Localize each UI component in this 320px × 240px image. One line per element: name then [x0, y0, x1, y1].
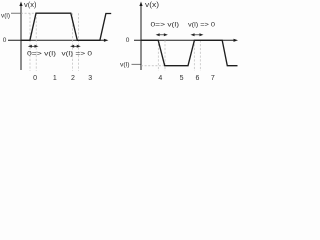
right plot rise-interval arrow: [192, 34, 203, 36]
left plot dashed guide at x=78.4: [77, 13, 79, 71]
svg-text:7: 7: [211, 75, 215, 82]
svg-text:v(l): v(l): [1, 13, 10, 20]
right plot y-axis: [139, 2, 142, 71]
left plot dashed guide at x=36: [35, 13, 37, 71]
svg-text:2: 2: [71, 75, 75, 82]
svg-text:4: 4: [158, 75, 162, 82]
right plot dashed guide at x=200.3: [199, 40, 201, 71]
right plot waveform v(x) dip: [141, 40, 238, 65]
left plot dashed guide at x=72.5: [72, 13, 74, 71]
right plot v(l) dashed level line: [141, 65, 164, 67]
svg-text:3: 3: [88, 75, 92, 82]
svg-text:v(x): v(x): [145, 2, 159, 9]
left plot dashed guide at x=30: [29, 13, 31, 71]
right plot dashed guide at x=158.3: [157, 40, 159, 71]
right plot fall-interval arrow: [157, 34, 167, 36]
left plot v(l) dashed level line: [21, 12, 36, 14]
svg-text:0=> v(l): 0=> v(l): [27, 51, 56, 58]
right plot x-axis: [134, 39, 238, 42]
left plot x-axis: [8, 39, 108, 42]
svg-text:v(l) => 0: v(l) => 0: [188, 22, 215, 29]
svg-text:0=> v(l): 0=> v(l): [151, 22, 180, 29]
svg-text:6: 6: [196, 75, 200, 82]
svg-text:v(l) => 0: v(l) => 0: [62, 51, 93, 58]
right plot v(l) level tick: [132, 63, 141, 65]
svg-text:0: 0: [126, 37, 130, 44]
right plot dashed guide at x=165: [164, 40, 166, 71]
svg-text:v(x): v(x): [24, 2, 37, 9]
svg-text:0: 0: [3, 37, 7, 44]
left plot waveform v(x) pulse: [21, 13, 111, 40]
left plot y-axis: [19, 2, 22, 71]
left plot fall-interval arrow: [71, 45, 80, 47]
svg-text:1: 1: [53, 75, 57, 82]
left plot rise-interval arrow: [29, 45, 38, 47]
svg-text:0: 0: [33, 75, 37, 82]
svg-text:5: 5: [180, 75, 184, 82]
left plot v(l) level tick: [11, 12, 21, 14]
svg-text:v(l): v(l): [120, 61, 130, 68]
right plot dashed guide at x=194.3: [193, 40, 195, 71]
